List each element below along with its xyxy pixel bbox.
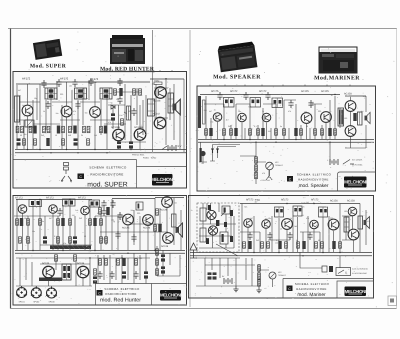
transistor TR6 AC148 xyxy=(155,87,167,99)
electrolytic C2 xyxy=(74,138,78,145)
resistor xyxy=(294,128,297,136)
resistor R8 xyxy=(62,126,65,132)
transistor TR4 AC126 xyxy=(113,129,125,141)
wire bottom bus xyxy=(15,150,186,153)
svg-text:47k: 47k xyxy=(367,220,370,223)
svg-text:10n: 10n xyxy=(41,220,44,223)
svg-text:5k6: 5k6 xyxy=(248,106,251,109)
svg-text:100: 100 xyxy=(302,202,305,205)
wire top rail SP xyxy=(200,95,366,97)
transistor TM4 MA xyxy=(310,220,319,229)
wire bottom bus SP xyxy=(198,140,374,143)
capacitor xyxy=(217,92,222,100)
resistor xyxy=(122,258,125,266)
svg-text:Mod.MARINER: Mod.MARINER xyxy=(314,75,360,82)
logo box top border xyxy=(137,166,187,168)
tuning dial band RH xyxy=(50,246,91,250)
title area divider MA xyxy=(283,279,374,299)
arrow mark SP xyxy=(266,176,272,180)
svg-text:25: 25 xyxy=(214,109,216,112)
resistor row SP xyxy=(205,129,208,135)
IF transformer MF1 MA xyxy=(275,207,284,217)
switch S1 xyxy=(162,146,167,150)
resistor xyxy=(156,269,159,275)
capacitor C10 xyxy=(117,141,121,148)
resistor R out xyxy=(154,82,162,85)
pickup jack symbol xyxy=(61,163,71,182)
scanned page top border xyxy=(8,28,397,30)
IF transformer MF2 RH xyxy=(63,199,76,206)
IF transformer MF2 xyxy=(75,88,87,99)
resistor xyxy=(300,129,303,135)
battery 9V xyxy=(168,145,176,151)
resistor AGC4 xyxy=(139,89,142,95)
transistor TS1 SP xyxy=(213,113,222,122)
tone capacitor SP2 xyxy=(216,149,219,153)
electrolytic xyxy=(161,254,165,261)
resistor R19 xyxy=(87,139,90,145)
IF coupling rect RH xyxy=(136,202,143,210)
IF transformer MF2 MA xyxy=(293,206,302,216)
resistor AGC1 xyxy=(114,89,117,95)
wire audio verticals RH xyxy=(20,253,146,286)
resistor audio RH xyxy=(99,259,102,265)
scattered value label smudges xyxy=(22,83,370,246)
thermistor circle SP xyxy=(266,162,274,170)
electrolytic xyxy=(144,271,148,278)
resistor R12 xyxy=(87,126,90,132)
scanned page bottom border xyxy=(10,308,397,310)
scan wash tint xyxy=(13,72,376,306)
svg-text:47: 47 xyxy=(118,220,120,223)
svg-text:25: 25 xyxy=(280,228,282,231)
svg-text:3n3: 3n3 xyxy=(144,219,147,222)
resistor R14 xyxy=(104,126,107,134)
output transformer MA xyxy=(358,216,363,229)
speaker SP xyxy=(173,99,181,115)
svg-text:4k7: 4k7 xyxy=(255,201,258,204)
transistor TR3 RH xyxy=(81,206,90,215)
wire top rail MA xyxy=(240,203,360,205)
driver transformer SP xyxy=(338,108,344,126)
wire bottom bus MA xyxy=(190,253,372,256)
transistor TS7 SP xyxy=(345,126,356,137)
title divider RH xyxy=(151,284,153,306)
junction dots RH xyxy=(32,199,155,259)
resistor xyxy=(328,128,331,136)
battery MA xyxy=(224,278,232,284)
page column divider xyxy=(189,30,191,307)
capacitor xyxy=(243,92,248,100)
electrolytic xyxy=(122,271,126,278)
resistor xyxy=(255,165,258,171)
svg-text:10n: 10n xyxy=(32,230,35,233)
resistor xyxy=(43,236,47,243)
resistor R13 xyxy=(100,126,103,132)
svg-text:10n: 10n xyxy=(56,112,59,115)
electrolytic AGC xyxy=(111,113,115,120)
resistor xyxy=(27,219,30,225)
resistor bank row1 RH xyxy=(16,219,19,225)
resistor xyxy=(339,242,342,248)
resistor xyxy=(261,242,264,248)
svg-text:100: 100 xyxy=(304,111,307,114)
resistor R17 xyxy=(46,138,49,146)
capacitor C5 xyxy=(72,79,77,87)
output transformer RH xyxy=(172,214,177,227)
wire mid rails RH xyxy=(14,216,168,286)
extra scan grain xyxy=(15,76,369,299)
antenna MA xyxy=(190,243,197,258)
resistor xyxy=(234,128,237,136)
svg-text:5k6: 5k6 xyxy=(111,118,114,121)
svg-text:5k6: 5k6 xyxy=(28,111,31,114)
resistor xyxy=(61,218,64,226)
capacitor C8 xyxy=(45,101,50,109)
resistor bias out xyxy=(94,269,97,275)
phone jack J3 xyxy=(46,287,57,299)
scan noise speckle xyxy=(12,32,394,305)
svg-text:220: 220 xyxy=(100,205,103,208)
svg-text:10n: 10n xyxy=(119,114,122,117)
antenna coil L1 xyxy=(15,96,20,122)
output transformer T2 xyxy=(168,93,174,113)
scanned page left border xyxy=(10,29,12,309)
transistor TS3 SP xyxy=(262,113,271,122)
transistor TR8 RH xyxy=(43,266,55,278)
switch S SP xyxy=(343,160,354,165)
resistor audio in xyxy=(55,255,58,261)
resistor xyxy=(283,129,286,135)
resistor chain MA xyxy=(258,265,261,271)
resistor xyxy=(39,219,42,225)
resistor xyxy=(297,242,300,248)
junction dots MA xyxy=(253,203,340,257)
svg-text:220: 220 xyxy=(174,202,177,205)
resistor row MA xyxy=(243,242,246,248)
tuner osc circle MA xyxy=(208,226,217,235)
wire verticals MA xyxy=(242,204,366,253)
electrolytic C1 xyxy=(17,138,21,145)
transistor TR5 AC128 xyxy=(134,129,146,141)
photo radio mod. SPEAKER xyxy=(217,41,257,72)
transistor TM6 MA xyxy=(348,207,357,216)
IF transformer MF1 RH xyxy=(29,200,42,207)
IF transformer MF1 xyxy=(45,88,57,99)
schematic frame MARINER xyxy=(189,196,374,299)
plug symbols MA xyxy=(322,266,327,272)
resistor xyxy=(255,172,258,178)
C trademark square RH xyxy=(97,290,103,296)
svg-text:1k: 1k xyxy=(331,94,333,97)
resistor R7 xyxy=(57,126,60,134)
transistor TR9 RH xyxy=(77,266,89,278)
output transformer SP xyxy=(358,112,363,125)
resistor xyxy=(209,128,212,136)
resistor xyxy=(57,237,60,243)
page number mark xyxy=(390,299,394,303)
svg-text:47k: 47k xyxy=(108,121,111,124)
resistor xyxy=(321,242,324,248)
resistor xyxy=(135,259,138,265)
resistor xyxy=(223,129,226,135)
wire bottom section MA xyxy=(196,252,340,286)
phone jack J2 xyxy=(31,286,42,298)
svg-text:10n: 10n xyxy=(316,224,319,227)
scanned page right border xyxy=(396,29,398,309)
resistor xyxy=(275,129,278,135)
svg-text:5n6: 5n6 xyxy=(204,109,207,112)
photo radio mod. RED HUNTER xyxy=(110,35,145,64)
transistor TS2 SP xyxy=(238,113,247,122)
resistor xyxy=(258,280,261,286)
C trademark square xyxy=(78,174,85,180)
electrolytic bias out xyxy=(93,276,97,283)
resistor R15 xyxy=(23,139,26,145)
resistor xyxy=(315,242,318,248)
capacitor xyxy=(57,208,62,216)
AGC network wires xyxy=(108,84,143,135)
ferrite rod RH xyxy=(39,278,62,282)
capacitor mid RH b xyxy=(110,200,115,208)
IF transformer MF1 SP xyxy=(224,98,235,108)
resistor xyxy=(105,237,108,243)
wire verticals SP xyxy=(206,96,351,178)
wire right col RH xyxy=(157,246,180,276)
ground xyxy=(256,287,261,293)
capacitor C7 xyxy=(117,78,122,86)
transistor TR2 AF172 xyxy=(61,106,72,117)
resistor chain SP xyxy=(255,157,258,163)
resistor xyxy=(257,129,260,135)
transistor TM1 MA xyxy=(244,219,253,228)
svg-text:5n6: 5n6 xyxy=(363,95,366,98)
resistor AGC2 xyxy=(119,88,122,96)
resistor xyxy=(285,242,288,248)
antenna rod SP xyxy=(198,96,201,128)
resistor right RH c xyxy=(158,224,161,232)
resistor xyxy=(156,259,159,265)
wire RF buses RH xyxy=(15,251,185,254)
svg-text:12k: 12k xyxy=(320,133,323,136)
resistor mid xyxy=(121,119,124,125)
resistor xyxy=(321,129,324,135)
phone jack J1 xyxy=(16,286,27,298)
tuner coil L4 MA xyxy=(220,232,228,244)
wire chain MA xyxy=(259,264,273,287)
speaker MA xyxy=(364,217,370,229)
junction dots xyxy=(27,78,167,153)
capacitor xyxy=(117,212,122,220)
resistor R9 xyxy=(69,126,72,132)
capacitor xyxy=(287,232,292,240)
resistor right col RH xyxy=(156,249,159,255)
capacitor C9 xyxy=(75,101,80,109)
tuner dashed box MA xyxy=(197,203,239,252)
tuner wires MA xyxy=(199,203,234,248)
tuning gang CV xyxy=(25,120,34,127)
svg-text:Mod. SUPER: Mod. SUPER xyxy=(30,64,67,70)
photo radio mod. MARINER xyxy=(319,47,357,73)
svg-text:0,1: 0,1 xyxy=(302,214,305,217)
capacitor C11 xyxy=(129,141,133,148)
IF transformer MF3 SP xyxy=(272,98,283,108)
resistor xyxy=(100,237,103,243)
driver transformer T1 xyxy=(148,99,155,116)
transistor TM5 MA xyxy=(328,219,339,230)
tuner mixer circle MA xyxy=(207,210,216,219)
svg-text:2k2: 2k2 xyxy=(22,104,25,107)
wire mid rails xyxy=(16,88,168,142)
svg-text:50n: 50n xyxy=(131,209,134,212)
svg-text:50n: 50n xyxy=(24,133,27,136)
transistor TR2 RH xyxy=(49,205,58,214)
resistor xyxy=(73,236,77,243)
wire mid rails SP xyxy=(204,96,366,156)
tuner coil L3 MA xyxy=(200,228,206,242)
schematic frame SPEAKER xyxy=(197,86,376,191)
capacitor AGC xyxy=(117,96,122,104)
scan noise dark specks xyxy=(11,49,393,307)
svg-text:25: 25 xyxy=(303,205,305,208)
C trademark square SP xyxy=(287,176,293,182)
resistor R18 xyxy=(62,139,65,145)
logo box MA xyxy=(337,281,374,298)
resistor xyxy=(27,237,30,243)
capacitor xyxy=(115,231,120,239)
resistor R4 xyxy=(33,126,36,134)
resistor mid RH a xyxy=(99,208,102,214)
speaker SP2 xyxy=(365,112,371,123)
tone capacitor SP xyxy=(211,149,214,153)
svg-text:5k6: 5k6 xyxy=(294,225,297,228)
resistor xyxy=(332,241,335,249)
resistor xyxy=(89,219,92,225)
electrolytic xyxy=(161,266,165,273)
svg-text:12k: 12k xyxy=(275,242,278,245)
wire chain SP xyxy=(256,156,270,184)
capacitor xyxy=(133,271,138,279)
resistor xyxy=(117,259,120,265)
svg-text:4k7: 4k7 xyxy=(226,118,229,121)
electrolytic xyxy=(213,272,217,279)
svg-text:150: 150 xyxy=(265,218,268,221)
volume pot with switch SP xyxy=(200,148,202,162)
transistor TM3 MA xyxy=(282,219,293,230)
title left border RH xyxy=(95,284,97,306)
title top border RH xyxy=(96,283,187,285)
tuner coil L1 MA xyxy=(200,208,206,221)
IF transformer MF3 xyxy=(100,88,112,99)
maker logo block SP xyxy=(344,177,367,188)
transistor TR4 RH xyxy=(123,214,134,225)
title divider vertical xyxy=(136,160,138,189)
capacitor AGC2 xyxy=(131,108,136,116)
resistor bank row2 RH xyxy=(19,237,22,243)
svg-text:50n: 50n xyxy=(85,111,88,114)
C trademark square MA xyxy=(287,286,293,292)
tuner extra parts MA xyxy=(208,205,211,210)
resistor xyxy=(258,273,261,279)
page number box fragment xyxy=(388,296,397,306)
wire verticals RH xyxy=(17,198,181,250)
capacitor xyxy=(265,92,270,100)
audio transformer RH xyxy=(62,264,71,280)
svg-text:5k6: 5k6 xyxy=(244,205,247,208)
transistor TR5 RH xyxy=(143,215,154,226)
resistor xyxy=(69,237,72,243)
IF transformer MF3 MA xyxy=(319,207,328,217)
transistor TS4 SP xyxy=(301,113,312,124)
resistor AGC3 xyxy=(133,89,136,95)
battery SP xyxy=(330,159,338,165)
top border component stubs SPEAKER xyxy=(210,85,350,87)
resistor xyxy=(93,218,96,226)
resistor right RH b xyxy=(154,225,157,231)
maker logo block SUPER xyxy=(152,174,173,186)
resistor xyxy=(100,219,103,225)
IF transformer MF2 SP xyxy=(250,98,261,108)
svg-text:150: 150 xyxy=(268,130,271,133)
capacitor xyxy=(131,234,136,242)
svg-text:Mod. SPEAKER: Mod. SPEAKER xyxy=(213,74,261,81)
capacitor C6 xyxy=(88,78,93,86)
switch box MA xyxy=(336,268,351,276)
resistor between outputs xyxy=(353,113,356,121)
resistor R5 xyxy=(43,126,46,132)
resistor mid RH b xyxy=(106,207,109,215)
transistor TS5 SP xyxy=(321,112,332,123)
resistor R6 xyxy=(47,126,50,132)
IF transformer MF3 RH xyxy=(89,200,100,207)
transistor TR1 RH xyxy=(18,205,27,214)
svg-text:3n3: 3n3 xyxy=(102,237,105,240)
capacitor xyxy=(288,100,293,108)
resistor R10 xyxy=(73,126,76,134)
svg-text:2k2: 2k2 xyxy=(111,219,114,222)
resistor xyxy=(314,129,317,135)
transistor TR7 AC142 xyxy=(154,117,166,129)
transistor TM2 MA xyxy=(262,220,271,229)
transistor TR1 AF172 xyxy=(22,105,33,116)
wire steps SP xyxy=(201,142,241,149)
resistor right RH a xyxy=(156,209,159,215)
wire verticals xyxy=(17,78,184,152)
capacitor mid RH a xyxy=(101,200,106,208)
schematic frame SUPER xyxy=(13,72,187,189)
detector diode D1 xyxy=(111,105,115,109)
driver transformer MA xyxy=(344,217,349,232)
resistor R3 xyxy=(29,126,32,132)
maker logo block MA xyxy=(345,287,367,297)
resistor xyxy=(20,218,23,226)
svg-text:150: 150 xyxy=(72,214,75,217)
resistor xyxy=(57,219,60,225)
resistor audio in2 xyxy=(74,255,77,261)
svg-text:5n6: 5n6 xyxy=(75,209,78,212)
electrolytic pair MA xyxy=(208,272,212,279)
capacitor C4 xyxy=(56,79,61,87)
title row top border xyxy=(13,159,137,161)
resistor xyxy=(248,241,251,249)
capacitor xyxy=(101,208,106,216)
capacitor xyxy=(267,232,272,240)
transistor TM7 MA xyxy=(348,229,359,240)
tuner coil L2 MA xyxy=(222,206,230,214)
maker logo block RH xyxy=(160,290,181,301)
capacitor xyxy=(97,271,102,279)
capacitor xyxy=(247,232,252,240)
